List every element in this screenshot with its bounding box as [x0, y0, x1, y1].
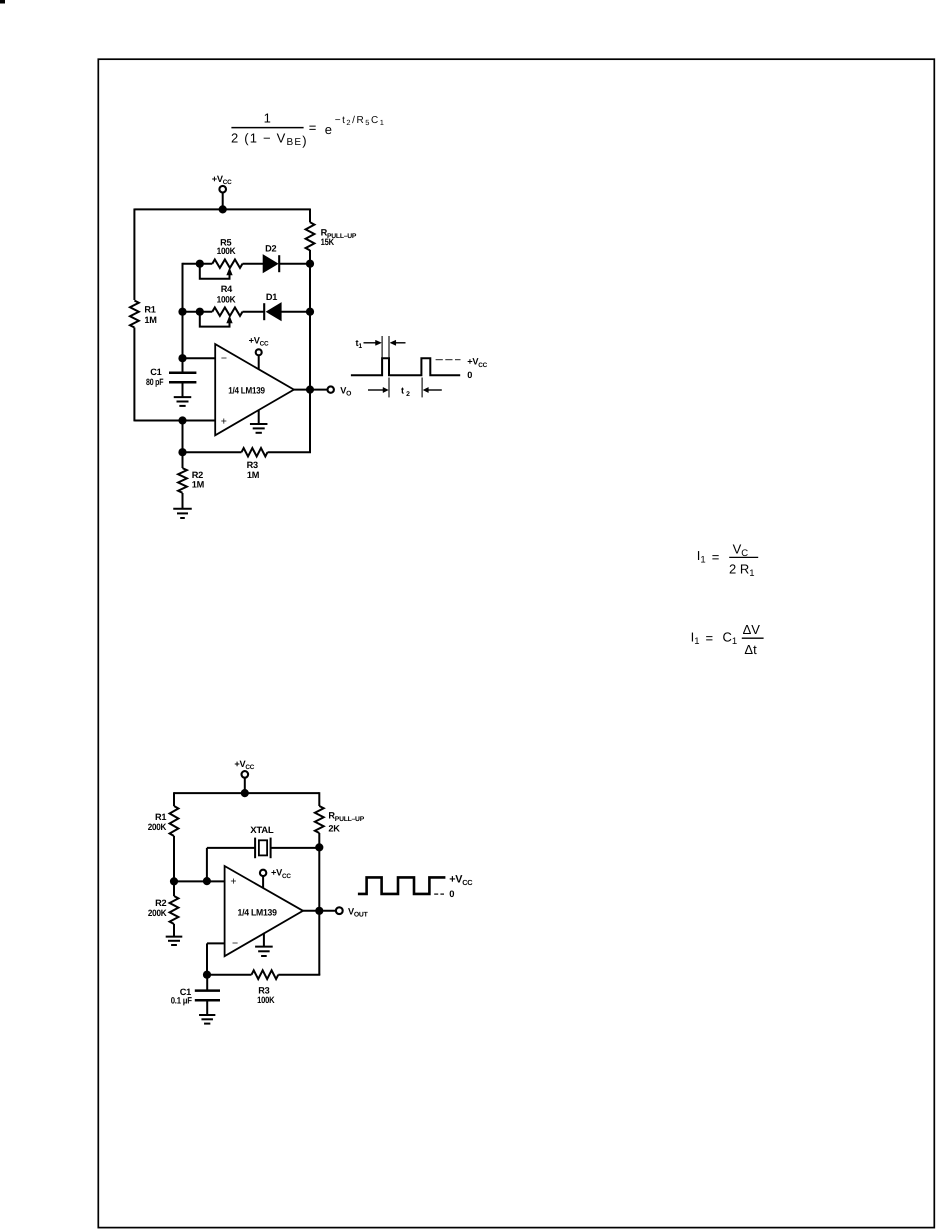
wire: VCC stem 2 — [244, 778, 246, 794]
node: R4 wiper junction — [196, 308, 204, 316]
svg-text:100K: 100K — [217, 294, 236, 304]
wire: R5 row to minus rail (vertical) — [182, 263, 184, 358]
svg-text:80 pF: 80 pF — [146, 377, 164, 387]
wire: + input row — [174, 880, 225, 882]
diode D1 — [263, 303, 265, 320]
op-amp2 supply terminal — [260, 870, 266, 876]
op-amp ground — [250, 423, 268, 425]
svg-text:ΔV: ΔV — [743, 622, 761, 637]
node: R5 left junction — [196, 260, 204, 268]
node: R3 row junction 2 — [203, 971, 211, 979]
circuit 1: +VCC terminal — [219, 186, 226, 193]
svg-text:100K: 100K — [217, 246, 236, 256]
wire: xtal left drop to + input — [206, 848, 208, 882]
wire: R2 stem — [182, 452, 184, 468]
svg-text:D2: D2 — [265, 243, 276, 253]
capacitor C1 stem — [182, 358, 184, 373]
op-amp2 ground — [255, 946, 273, 948]
svg-text:+VCC: +VCC — [449, 873, 473, 886]
svg-text:I1: I1 — [691, 629, 700, 647]
R5 wiper arm — [200, 264, 230, 279]
wire: R2-2 to ground — [173, 924, 175, 937]
R2 ground — [173, 508, 192, 510]
node: plus input junction — [178, 416, 186, 424]
svg-text:2 R1: 2 R1 — [729, 561, 755, 579]
svg-text:+VCC: +VCC — [234, 759, 254, 771]
resistor R3 1M — [242, 448, 268, 456]
svg-text:Δt: Δt — [744, 642, 757, 657]
C1 ground — [174, 396, 192, 398]
wire: output stem — [294, 389, 328, 391]
wire: left branch to R1-2 — [173, 792, 175, 806]
wire: R2 to ground — [182, 493, 184, 509]
svg-text:+VCC: +VCC — [467, 357, 487, 369]
node: D2 right rail junction — [306, 260, 314, 268]
wire: plus input node — [183, 420, 215, 422]
svg-text:VC: VC — [733, 541, 749, 559]
svg-text:t 2: t 2 — [401, 386, 410, 398]
svg-text:1/4 LM139: 1/4 LM139 — [238, 908, 277, 918]
waveform1 t2 left-pointing arrow — [427, 389, 442, 391]
svg-text:R4: R4 — [221, 284, 233, 294]
waveform2 dashed zero level — [434, 893, 444, 895]
waveform1 t1 right-pointing arrow — [364, 342, 377, 344]
svg-text:I1: I1 — [697, 548, 706, 566]
wire: right rail 2 — [318, 833, 320, 975]
svg-text:D1: D1 — [266, 292, 277, 302]
svg-text:+VCC: +VCC — [212, 174, 232, 186]
svg-text:R2: R2 — [155, 898, 166, 908]
wire: supply stem 2 — [262, 876, 264, 888]
svg-text:100K: 100K — [257, 995, 275, 1005]
svg-text:1M: 1M — [144, 315, 157, 325]
svg-text:1: 1 — [264, 110, 271, 125]
wire: R5 row left segment — [183, 263, 213, 265]
svg-text:VO: VO — [340, 385, 351, 397]
wire: top rail 2 — [174, 792, 319, 794]
capacitor C1 80pF — [169, 372, 196, 375]
wire: R5 to D2 — [243, 263, 264, 265]
page corner mark — [0, 0, 5, 4]
svg-text:0.1 μF: 0.1 μF — [171, 996, 193, 1006]
svg-text:1M: 1M — [192, 480, 205, 490]
svg-text:2 (1 − VBE): 2 (1 − VBE) — [231, 131, 308, 149]
waveform1 baseline and pulses — [351, 358, 460, 375]
svg-text:VOUT: VOUT — [348, 906, 369, 918]
waveform1 dashed VCC level — [436, 359, 461, 361]
wire: right branch down to Rpullup — [309, 209, 311, 223]
resistor R2 1M — [178, 468, 187, 493]
svg-text:=: = — [712, 550, 720, 565]
wire: R1 to + input rail — [133, 328, 135, 422]
svg-text:−: − — [221, 353, 227, 365]
svg-text:2K: 2K — [328, 824, 340, 834]
node: R4 row left junction — [178, 308, 186, 316]
wire: minus drop to R3 row 2 — [206, 943, 208, 974]
waveform1 t2 tick marks — [388, 378, 390, 398]
svg-text:t1: t1 — [356, 338, 363, 350]
formula: 1/(2(1-VBE)) = e^-t2/R5C1 — [231, 110, 386, 148]
output terminal VOUT — [336, 907, 343, 914]
wire: top rail — [134, 208, 310, 210]
capacitor C1 stem 2 — [206, 975, 208, 991]
svg-text:C1: C1 — [723, 629, 738, 647]
node: xtal right rail junction — [315, 843, 323, 851]
svg-text:−: − — [232, 938, 238, 950]
wire: right branch to Rpullup 2 — [318, 792, 320, 806]
node: + input mid junction — [203, 877, 211, 885]
resistor R3 100K — [252, 970, 279, 979]
svg-text:1M: 1M — [247, 470, 260, 480]
op-amp2 ground stem — [263, 933, 265, 947]
node: output junction 2 — [315, 907, 323, 915]
svg-text:0: 0 — [467, 370, 472, 380]
wire: R2 stem 2 — [173, 881, 175, 896]
svg-text:−t2/R5C1: −t2/R5C1 — [335, 115, 386, 127]
op-amp U1 1/4 LM139 — [215, 344, 294, 435]
output terminal VO — [328, 386, 334, 392]
waveform1 t1 tick marks — [381, 336, 383, 358]
resistor RPULL-UP 15K — [306, 222, 315, 250]
svg-text:200K: 200K — [148, 822, 167, 832]
wire: D1 to right rail — [281, 311, 310, 313]
formula: I1 = C1 dV/dt — [691, 622, 764, 657]
wire: R3 to right rail — [268, 451, 312, 453]
svg-text:=: = — [706, 631, 714, 646]
svg-text:1/4 LM139: 1/4 LM139 — [228, 386, 265, 396]
waveform2 square wave — [358, 877, 446, 894]
resistor R4 (trimmer) — [212, 308, 242, 316]
resistor R1 — [130, 301, 139, 328]
wire: C1-2 to ground — [206, 1000, 208, 1015]
svg-text:+VCC: +VCC — [249, 335, 269, 347]
wire: left branch down to R1 — [133, 209, 135, 301]
wire: R1 to + rail 2 — [173, 836, 175, 881]
svg-text:0: 0 — [449, 888, 454, 899]
node: VCC junction top rail 2 — [241, 789, 249, 797]
capacitor C1 0.1uF — [195, 989, 220, 992]
op-amp supply terminal — [256, 349, 262, 355]
wire: right rail Rpullup to R3 row — [309, 250, 311, 452]
svg-text:R3: R3 — [258, 986, 269, 996]
node: inverting input junction — [178, 354, 186, 362]
node: D1 right rail junction — [306, 308, 314, 316]
svg-text:R1: R1 — [144, 305, 155, 315]
waveform1 t2 right-pointing arrow — [368, 389, 384, 391]
svg-text:C1: C1 — [150, 367, 161, 377]
wire: VCC stem — [222, 192, 224, 209]
crystal XTAL — [254, 838, 256, 859]
C1 ground 2 — [199, 1014, 215, 1016]
wire: output stem 2 — [303, 910, 336, 912]
resistor R5 (trimmer) — [212, 260, 242, 268]
wire: R4 to D1 — [243, 311, 265, 313]
resistor RPULL-UP 2K — [315, 806, 324, 833]
wire: R3 row left segment — [183, 451, 242, 453]
node: left rail + junction — [170, 877, 178, 885]
svg-text:15K: 15K — [321, 237, 335, 247]
resistor R1 200K — [170, 806, 179, 836]
wire: R3 to right rail 2 — [278, 974, 320, 976]
wire: xtal left segment — [207, 847, 255, 849]
svg-text:+VCC: +VCC — [271, 868, 291, 880]
svg-text:200K: 200K — [148, 908, 167, 918]
waveform1 t1 left-pointing arrow — [393, 342, 406, 344]
svg-text:+: + — [230, 875, 236, 887]
node: R3 row junction — [178, 448, 186, 456]
wire: C1 to ground — [182, 382, 184, 397]
svg-text:RPULL–UP: RPULL–UP — [328, 811, 364, 823]
diode D2 — [263, 255, 277, 272]
op-amp ground stem — [258, 410, 260, 424]
svg-text:R1: R1 — [155, 812, 166, 822]
wire: minus input 2 — [207, 942, 225, 944]
wire: supply stem — [258, 355, 260, 369]
svg-text:=: = — [309, 120, 317, 135]
resistor R2 200K — [170, 896, 179, 924]
svg-text:XTAL: XTAL — [250, 825, 274, 835]
node: VCC junction on top rail — [219, 205, 227, 213]
node: output junction — [306, 386, 314, 394]
svg-text:e: e — [325, 122, 332, 137]
svg-text:R3: R3 — [247, 460, 258, 470]
R2 ground 2 — [166, 936, 183, 938]
wire: xtal right segment — [271, 847, 320, 849]
formula: I1 = VC / 2R1 — [697, 541, 758, 579]
wire: minus input — [183, 357, 216, 359]
wire: R4 row left segment — [183, 311, 213, 313]
wire: plus node down to R3 row — [182, 421, 184, 453]
circuit 2: +VCC terminal — [242, 771, 249, 778]
svg-text:+: + — [221, 415, 227, 427]
op-amp U2 1/4 LM139 — [225, 866, 303, 956]
wire: R3 row left segment 2 — [207, 974, 252, 976]
R4 wiper arm — [200, 312, 230, 327]
wire: D2 to right rail — [280, 263, 310, 265]
